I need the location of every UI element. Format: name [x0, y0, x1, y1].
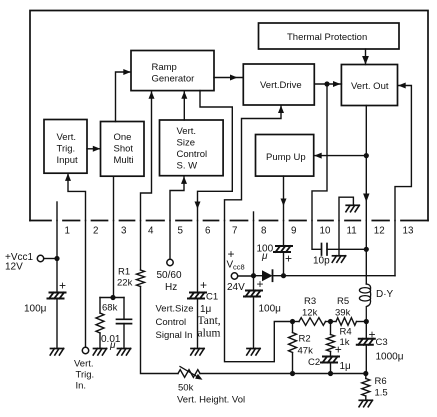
- diode D1: [254, 275, 263, 277]
- svg-text:100μ: 100μ: [24, 304, 47, 315]
- capacitor C3 1000u: [365, 322, 367, 339]
- svg-text:1μ: 1μ: [340, 361, 352, 372]
- svg-text:Pump Up: Pump Up: [266, 152, 306, 163]
- wire pin 3 down to node: [113, 221, 115, 298]
- wire pin 5 to Vert.Size Control S.W bottom: [170, 177, 184, 221]
- ground under 0.01u: [118, 348, 131, 350]
- wire junction to Pump Up right: [315, 155, 367, 157]
- svg-text:Thermal Protection: Thermal Protection: [287, 32, 367, 43]
- block U1a Vert. Trig. Input: [44, 120, 87, 174]
- svg-text:9: 9: [291, 226, 296, 237]
- svg-text:μ: μ: [261, 251, 268, 262]
- inductor D-Y deflection yoke: [359, 288, 370, 293]
- svg-text:Control: Control: [156, 317, 187, 328]
- wire pin 7 to Vert.Drive bottom: [225, 106, 282, 221]
- svg-text:5: 5: [178, 226, 184, 237]
- svg-text:C3: C3: [376, 337, 388, 348]
- svg-text:Vert.: Vert.: [57, 132, 77, 143]
- ground under R6: [359, 399, 372, 401]
- svg-text:R3: R3: [304, 296, 316, 307]
- node pin 3 external: [110, 295, 115, 300]
- capacitor 100u pump-up at pin 9: [276, 245, 292, 247]
- svg-text:C2: C2: [308, 357, 320, 368]
- wire Vert.Trig.Input bottom to pin 2: [68, 174, 86, 221]
- resistor 68k: [99, 298, 101, 314]
- svg-text:Trig.: Trig.: [76, 370, 95, 381]
- svg-text:R6: R6: [375, 376, 387, 387]
- svg-text:Signal In: Signal In: [156, 330, 193, 341]
- block U1h Pump Up: [256, 135, 314, 177]
- svg-text:12: 12: [374, 226, 385, 237]
- wire pin 13 down: [394, 221, 396, 276]
- svg-text:Vert. Out: Vert. Out: [351, 81, 389, 92]
- wire Vert.Trig.Input to One Shot Multi: [87, 148, 100, 150]
- wire pin 6 down: [197, 221, 199, 293]
- wire Vcc1 to pin 1: [44, 258, 57, 260]
- block U1d Ramp Generator: [131, 51, 214, 91]
- node junction pin 8 / Vcc8: [251, 273, 256, 278]
- svg-text:+: +: [59, 279, 66, 293]
- svg-text:Vert.: Vert.: [74, 359, 94, 370]
- node junction R3/R2/pin7: [290, 319, 295, 324]
- svg-text:12V: 12V: [5, 262, 23, 273]
- block U1e Thermal Protection: [259, 23, 400, 49]
- svg-text:11: 11: [347, 226, 357, 237]
- svg-text:Control: Control: [177, 149, 208, 160]
- svg-text:C1: C1: [206, 292, 218, 303]
- svg-text:Input: Input: [57, 155, 78, 166]
- wire One Shot Multi bottom to pin 3: [113, 176, 115, 220]
- svg-text:Shot: Shot: [114, 144, 134, 155]
- wire Vert.Out bottom to pin 12: [365, 106, 367, 221]
- node junction on Vert.Out bottom wire: [364, 153, 369, 158]
- node junction pin 1 / Vcc1: [54, 256, 59, 261]
- wire boost rail to pin 13: [284, 275, 396, 277]
- svg-text:100μ: 100μ: [259, 304, 282, 315]
- svg-text:47k: 47k: [298, 346, 314, 357]
- svg-text:13: 13: [403, 226, 414, 237]
- wire Thermal Protection to Vert.Out top: [365, 49, 367, 65]
- block U1f Vert.Drive: [243, 64, 314, 105]
- svg-text:μ: μ: [109, 340, 116, 351]
- svg-text:D·Y: D·Y: [376, 289, 394, 300]
- IC package outline: [30, 11, 428, 221]
- wire Vcc8 to pin 8: [238, 275, 254, 277]
- wire pin 9 down: [283, 221, 285, 246]
- capacitor C1 1u tantalum: [190, 292, 206, 294]
- svg-text:Trig.: Trig.: [57, 144, 76, 155]
- svg-text:S. W: S. W: [177, 160, 198, 171]
- svg-text:8: 8: [261, 226, 267, 237]
- wire pin 4 to Ramp Generator bottom: [141, 92, 152, 221]
- ground under pin 11: [333, 255, 346, 257]
- wire pin 8 down: [253, 221, 255, 291]
- svg-text:2: 2: [93, 226, 98, 237]
- wire pin 11 to ground: [338, 221, 340, 256]
- ground under 68k: [94, 348, 107, 350]
- svg-text:alum: alum: [198, 328, 221, 340]
- svg-text:50k: 50k: [178, 383, 194, 394]
- node junction R3/R5/R4: [328, 319, 333, 324]
- svg-text:Multi: Multi: [114, 155, 134, 166]
- node junction diode cathode / pin 9: [281, 273, 286, 278]
- wire Pump Up bottom to pin 9: [283, 176, 285, 220]
- svg-text:R1: R1: [118, 267, 130, 278]
- svg-text:Tant,: Tant,: [198, 315, 221, 327]
- svg-text:In.: In.: [76, 381, 87, 392]
- svg-text:Vert.: Vert.: [177, 126, 197, 137]
- ground under pin 1 cap: [51, 348, 64, 350]
- wire Ramp Generator to Vert.Drive: [214, 77, 243, 79]
- wire pin 11 internal to ground: [339, 197, 353, 220]
- svg-text:3: 3: [121, 226, 127, 237]
- capacitor 10p: [321, 244, 323, 256]
- wire pin 8 internal stub: [253, 212, 255, 221]
- svg-text:Vert.Size: Vert.Size: [156, 304, 194, 315]
- wire pin 12 down to D-Y: [365, 221, 367, 285]
- resistor R6 1.5: [365, 374, 367, 379]
- node junction 10p / pin 12 wire: [364, 247, 369, 252]
- svg-text:R4: R4: [340, 327, 352, 338]
- block U1c Vert. Size Control S.W: [160, 120, 224, 176]
- svg-text:cc8: cc8: [233, 263, 245, 272]
- capacitor 0.01u: [123, 298, 125, 320]
- svg-text:+: +: [335, 343, 342, 357]
- svg-text:Vert. Height. Vol: Vert. Height. Vol: [177, 395, 245, 406]
- wire pot to feedback rail: [200, 373, 293, 375]
- svg-text:7: 7: [232, 226, 237, 237]
- svg-text:22k: 22k: [117, 278, 133, 289]
- ground internal at pin 11: [346, 204, 359, 206]
- wire pin 13 to Vert.Out right (feedback): [395, 86, 411, 221]
- node junction R5/C3/D-Y: [364, 319, 369, 324]
- svg-text:1.5: 1.5: [375, 388, 388, 399]
- svg-text:24V: 24V: [227, 282, 245, 293]
- wire Vert.Size Control S.W top to Ramp Generator bottom: [183, 92, 185, 120]
- svg-text:Size: Size: [177, 138, 195, 149]
- wire One Shot Multi top to Ramp Generator left: [116, 72, 131, 122]
- svg-text:1000μ: 1000μ: [376, 352, 404, 363]
- wire Ramp Generator bottom to pin 6: [198, 91, 233, 221]
- IC bottom edge dashes between pins: [30, 220, 428, 222]
- wire Vert.Drive output node to pin 10: [312, 84, 327, 221]
- wire Vert.Drive to Vert.Out: [314, 83, 341, 85]
- resistor R3 12k: [293, 321, 300, 323]
- capacitor 100u at pin 1: [50, 292, 66, 294]
- svg-text:R2: R2: [299, 334, 311, 345]
- svg-text:+: +: [200, 278, 207, 292]
- svg-text:+: +: [285, 252, 292, 266]
- svg-text:39k: 39k: [335, 308, 351, 319]
- block U1g Vert. Out: [341, 65, 397, 106]
- wire pin 1 down: [56, 221, 58, 293]
- resistor R4 1k: [330, 322, 332, 335]
- bottom feedback rail junctions: [290, 371, 295, 376]
- wire pin 1 internal stub: [56, 202, 58, 221]
- svg-text:Vert.Drive: Vert.Drive: [260, 80, 302, 91]
- capacitor 100u at pin 8: [246, 290, 262, 292]
- wire pin 2 to Vert.Trig.In terminal: [85, 221, 87, 348]
- svg-text:1: 1: [65, 226, 70, 237]
- svg-text:10: 10: [320, 226, 331, 237]
- svg-text:Hz: Hz: [165, 282, 177, 293]
- svg-text:R5: R5: [337, 296, 349, 307]
- svg-text:6: 6: [205, 226, 211, 237]
- svg-text:Generator: Generator: [152, 74, 195, 85]
- svg-text:10p: 10p: [313, 256, 330, 267]
- ground under pin 8 cap: [247, 348, 260, 350]
- svg-text:68k: 68k: [102, 303, 118, 314]
- svg-text:50/60: 50/60: [157, 270, 182, 281]
- svg-text:4: 4: [148, 226, 154, 237]
- block U1b One Shot Multi: [101, 122, 145, 177]
- svg-text:Ramp: Ramp: [152, 62, 177, 73]
- ground under C1: [191, 348, 204, 350]
- wire pin 10 to 10p cap: [312, 221, 322, 250]
- potentiometer 50k Vert. Height. Vol: [178, 370, 200, 378]
- wire bottom rail: [293, 373, 366, 375]
- wire pin 5 to 50/60 Hz terminal: [169, 221, 171, 260]
- svg-text:12k: 12k: [302, 308, 318, 319]
- wire pin 4 down: [140, 221, 142, 271]
- resistor R5 39k: [331, 321, 337, 323]
- resistor R2 47k: [292, 322, 294, 333]
- svg-text:One: One: [114, 132, 132, 143]
- svg-text:1μ: 1μ: [200, 304, 212, 315]
- resistor R1 22k: [137, 270, 145, 287]
- node junction Vert.Drive output: [324, 81, 329, 86]
- wire pin 7 external to feedback node: [225, 221, 293, 362]
